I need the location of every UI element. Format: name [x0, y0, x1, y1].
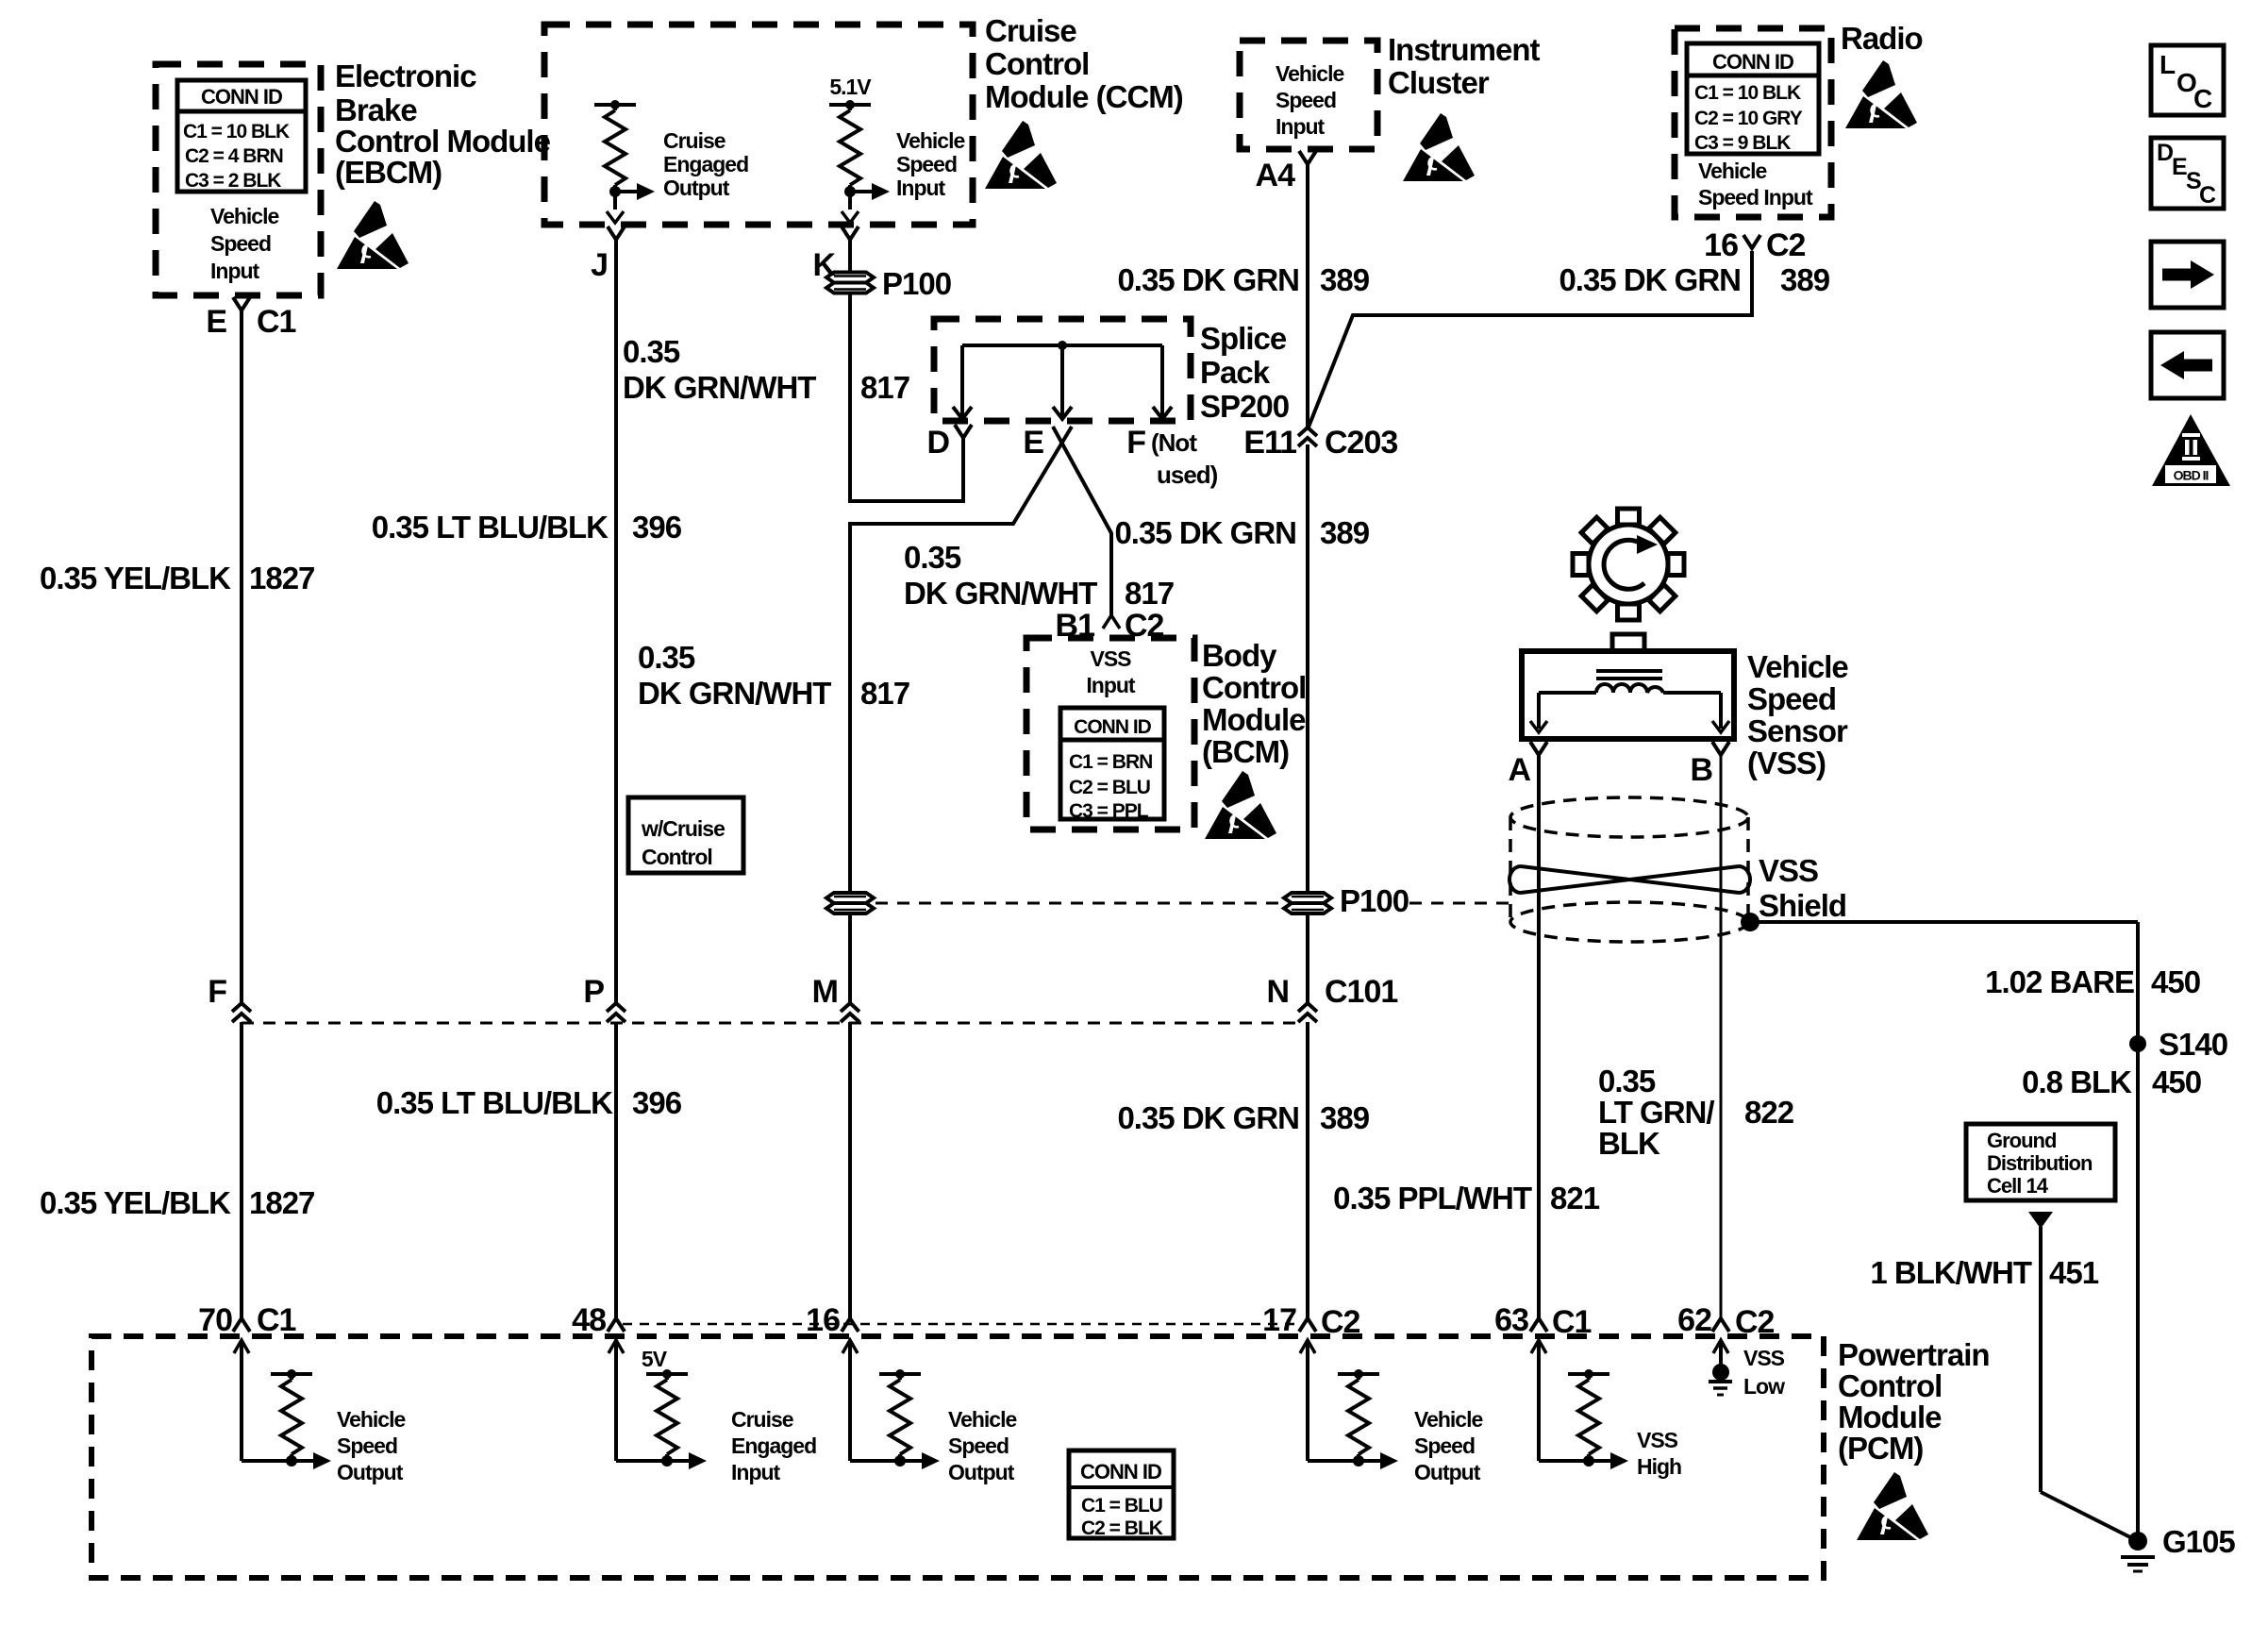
label Vehicle Speed Output 3	[1414, 1407, 1482, 1484]
svg-text:Speed: Speed	[1276, 88, 1336, 112]
connector P100 on M wire	[826, 893, 874, 914]
label Instrument Cluster	[1388, 32, 1541, 100]
connector E11 C203	[1243, 425, 1397, 461]
ESD symbol EBCM	[337, 201, 409, 269]
label 0.35 YEL/BLK 1827 lower	[40, 1185, 314, 1220]
svg-text:VSS: VSS	[1743, 1346, 1785, 1370]
svg-text:Input: Input	[210, 259, 260, 283]
svg-text:VSS: VSS	[1090, 646, 1131, 671]
svg-text:Input: Input	[1276, 114, 1326, 139]
svg-text:396: 396	[632, 510, 682, 545]
label Cruise Control Module (CCM)	[985, 13, 1183, 114]
svg-text:Vehicle: Vehicle	[210, 204, 278, 228]
svg-text:Cruise: Cruise	[663, 128, 725, 153]
label Splice Pack SP200	[1200, 321, 1289, 424]
wire E11 to P100	[1306, 444, 1309, 894]
svg-text:OBD II: OBD II	[2174, 468, 2209, 483]
svg-text:C1: C1	[1552, 1304, 1592, 1340]
pin A4 of cluster	[1256, 151, 1316, 193]
svg-text:Speed: Speed	[1414, 1433, 1475, 1458]
pin D of splice pack	[926, 425, 972, 461]
svg-text:Input: Input	[731, 1460, 781, 1484]
svg-text:(VSS): (VSS)	[1747, 746, 1826, 780]
ESD symbol BCM	[1205, 771, 1276, 839]
label 0.35 DK GRN 389 middle	[1114, 515, 1369, 550]
svg-text:CONN ID: CONN ID	[1080, 1460, 1161, 1484]
pin E of splice pack	[1023, 425, 1043, 461]
connector M C101	[812, 974, 859, 1022]
module Radio dashed box	[1675, 28, 1831, 217]
svg-text:70: 70	[198, 1302, 232, 1338]
svg-text:Electronic: Electronic	[335, 59, 476, 93]
BCM VSS Input label	[1086, 646, 1136, 697]
svg-text:C2 = BLK: C2 = BLK	[1081, 1517, 1163, 1539]
wire radio 16 to E11	[1308, 251, 1752, 429]
svg-text:VSS: VSS	[1759, 853, 1818, 888]
svg-text:D: D	[2157, 140, 2173, 166]
ground G105	[2121, 1524, 2235, 1571]
svg-text:C2: C2	[1735, 1304, 1775, 1340]
label Radio	[1841, 21, 1923, 56]
svg-text:Speed: Speed	[896, 152, 957, 176]
connector P100 on N wire	[1284, 883, 1409, 918]
svg-text:0.35: 0.35	[1598, 1064, 1656, 1098]
ESD symbol Instrument Cluster	[1403, 113, 1475, 181]
VSS inner wire left	[1530, 693, 1596, 732]
VSS gear icon	[1573, 509, 1684, 620]
label Vehicle Speed Output 1	[337, 1407, 405, 1484]
wire CCM J to P	[614, 240, 618, 1002]
svg-text:5.1V: 5.1V	[829, 75, 872, 99]
svg-text:Control: Control	[985, 46, 1089, 81]
wire PCM pin17 internal	[1300, 1340, 1359, 1461]
label 0.8 BLK 450	[2022, 1064, 2201, 1099]
svg-text:396: 396	[632, 1085, 682, 1120]
wire VSS A to PCM 63	[1537, 755, 1541, 1318]
icon OBD II triangle	[2152, 414, 2230, 486]
label 0.35 DK GRN/WHT 817 lower	[638, 640, 909, 711]
svg-text:A4: A4	[1256, 158, 1296, 193]
label 1.02 BARE 450	[1985, 964, 2200, 999]
label Electronic Brake Control Module (EBCM)	[335, 59, 551, 190]
svg-text:Speed Input: Speed Input	[1698, 185, 1813, 210]
wire P100 to M	[848, 915, 852, 1002]
svg-text:E11: E11	[1243, 425, 1296, 461]
svg-text:450: 450	[2152, 1064, 2201, 1099]
svg-text:1827: 1827	[249, 1185, 314, 1220]
svg-text:821: 821	[1550, 1181, 1600, 1215]
resistor CCM vehicle speed input	[829, 100, 890, 200]
svg-text:Splice: Splice	[1200, 321, 1287, 356]
pin E C1 of EBCM	[206, 297, 295, 340]
svg-text:Engaged: Engaged	[663, 152, 748, 176]
svg-text:S140: S140	[2159, 1027, 2227, 1062]
connector P100 on K wire	[826, 266, 951, 301]
connector P100 dashed link	[876, 902, 1509, 905]
EBCM CONN ID table	[177, 80, 306, 192]
svg-text:C2 = BLU: C2 = BLU	[1069, 777, 1150, 798]
svg-text:Pack: Pack	[1200, 355, 1271, 390]
label 0.35 DK GRN 389 radio	[1559, 262, 1829, 297]
svg-text:0.8 BLK: 0.8 BLK	[2022, 1064, 2132, 1099]
svg-text:389: 389	[1320, 262, 1370, 297]
label Vehicle Speed Sensor (VSS)	[1747, 649, 1848, 780]
Radio Vehicle Speed Input label	[1698, 159, 1813, 210]
svg-text:63: 63	[1494, 1302, 1528, 1338]
label Powertrain Control Module (PCM)	[1838, 1337, 1990, 1466]
wire N to PCM pin 17	[1306, 1022, 1309, 1318]
label Cruise Engaged Input	[731, 1407, 816, 1484]
svg-text:(BCM): (BCM)	[1202, 734, 1289, 769]
svg-text:Radio: Radio	[1841, 21, 1923, 56]
svg-text:Control: Control	[642, 845, 712, 869]
pin 16 of PCM	[806, 1302, 859, 1338]
svg-text:Vehicle: Vehicle	[1698, 159, 1766, 183]
label VSS Shield	[1759, 853, 1846, 923]
resistor PCM vehicle speed output 2	[879, 1369, 940, 1469]
svg-text:817: 817	[1125, 576, 1174, 611]
EBCM Vehicle Speed Input label	[210, 204, 278, 283]
label 0.35 DK GRN 389 top	[1117, 262, 1369, 297]
svg-text:(EBCM): (EBCM)	[335, 155, 442, 190]
svg-text:J: J	[591, 247, 608, 283]
svg-text:(PCM): (PCM)	[1838, 1431, 1923, 1466]
label 0.35 LT BLU/BLK 396 lower	[376, 1085, 682, 1120]
svg-text:C1 = 10 BLK: C1 = 10 BLK	[183, 121, 290, 142]
VSS coil	[1596, 684, 1663, 693]
pin A of VSS	[1508, 742, 1547, 788]
splice drop to F	[1153, 345, 1172, 419]
VSS sensor box	[1522, 634, 1734, 739]
svg-text:Control: Control	[1838, 1368, 1942, 1403]
cluster Vehicle Speed Input label	[1276, 61, 1343, 139]
svg-text:1827: 1827	[249, 561, 314, 595]
Radio CONN ID table	[1687, 43, 1819, 154]
svg-text:C1: C1	[257, 304, 296, 340]
svg-text:Control: Control	[1202, 670, 1306, 705]
svg-text:0.35: 0.35	[623, 334, 680, 369]
wire F to PCM pin 70	[240, 1022, 243, 1318]
PCM CONN ID table	[1069, 1450, 1174, 1539]
svg-text:B1: B1	[1056, 608, 1095, 644]
BCM CONN ID table	[1060, 708, 1164, 822]
ESD symbol PCM	[1857, 1472, 1928, 1540]
svg-text:17: 17	[1262, 1302, 1296, 1338]
wire PCM pin70 internal	[234, 1340, 292, 1461]
svg-text:Speed: Speed	[210, 231, 271, 256]
svg-text:817: 817	[860, 370, 909, 405]
pin 63 C1 of PCM	[1494, 1302, 1591, 1340]
label 5V	[642, 1347, 668, 1371]
svg-text:Cluster: Cluster	[1388, 65, 1490, 100]
svg-text:F: F	[1126, 425, 1145, 461]
wire CCM R2 to pin K	[842, 192, 859, 223]
svg-text:Instrument: Instrument	[1388, 32, 1541, 67]
svg-text:Vehicle: Vehicle	[1414, 1407, 1482, 1432]
label 0.35 LT GRN/BLK 822	[1598, 1064, 1794, 1161]
svg-text:L: L	[2160, 50, 2176, 79]
svg-text:F: F	[208, 974, 226, 1010]
pin 62 C2 of PCM	[1677, 1302, 1774, 1340]
connector C2 dashed line at PCM	[623, 1323, 1302, 1326]
svg-text:5V: 5V	[642, 1347, 668, 1371]
svg-text:822: 822	[1744, 1095, 1794, 1130]
svg-text:Sensor: Sensor	[1747, 713, 1848, 748]
svg-text:D: D	[926, 425, 949, 461]
svg-text:0.35 DK GRN: 0.35 DK GRN	[1114, 515, 1296, 550]
label Vehicle Speed Input CCM	[896, 128, 964, 200]
svg-text:C101: C101	[1325, 974, 1397, 1010]
svg-text:N: N	[1266, 974, 1289, 1010]
pin 16 C2 of Radio	[1704, 227, 1805, 263]
svg-text:Output: Output	[663, 176, 730, 200]
svg-text:Vehicle: Vehicle	[337, 1407, 405, 1432]
label (Not used)	[1151, 428, 1218, 489]
module BCM dashed box	[1026, 638, 1194, 830]
wire CCM R1 to pin J	[607, 192, 624, 223]
svg-text:Cell 14: Cell 14	[1987, 1174, 2049, 1198]
svg-text:Low: Low	[1743, 1374, 1785, 1399]
svg-text:(Not: (Not	[1151, 428, 1197, 457]
svg-text:C: C	[2199, 182, 2216, 209]
VSS shield dashed cylinder	[1510, 797, 1748, 942]
svg-text:P100: P100	[1340, 883, 1409, 918]
connector C101 dashed line	[242, 1022, 1304, 1025]
svg-text:C1 = BRN: C1 = BRN	[1069, 751, 1152, 773]
label VSS Low	[1743, 1346, 1785, 1399]
svg-text:P: P	[583, 974, 604, 1010]
label 1 BLK/WHT 451	[1870, 1255, 2098, 1290]
svg-text:C3 = PPL: C3 = PPL	[1069, 800, 1149, 822]
node S140	[2129, 1027, 2227, 1062]
svg-text:Speed: Speed	[337, 1433, 397, 1458]
pin 70 C1 of PCM	[198, 1302, 295, 1338]
svg-text:Cruise: Cruise	[985, 13, 1076, 48]
svg-text:1.02 BARE: 1.02 BARE	[1985, 964, 2134, 999]
connector F C101	[208, 974, 251, 1022]
svg-text:E: E	[206, 304, 226, 340]
svg-text:CONN ID: CONN ID	[201, 85, 282, 109]
wire PCM pin16 internal	[842, 1340, 900, 1461]
module Instrument Cluster dashed box	[1240, 41, 1377, 149]
splice bus wire	[962, 341, 1162, 350]
VSS core bars	[1596, 671, 1662, 679]
svg-text:0.35 DK GRN: 0.35 DK GRN	[1559, 262, 1741, 297]
label Body Control Module (BCM)	[1202, 638, 1306, 769]
svg-text:E: E	[2172, 154, 2187, 180]
svg-text:LT GRN/: LT GRN/	[1598, 1095, 1714, 1130]
svg-text:62: 62	[1677, 1302, 1711, 1338]
svg-text:C1: C1	[257, 1302, 296, 1338]
svg-text:C1 = 10 BLK: C1 = 10 BLK	[1694, 82, 1801, 104]
svg-text:Speed: Speed	[1747, 681, 1836, 716]
svg-text:C2: C2	[1125, 608, 1164, 644]
splice drop to D	[953, 345, 972, 419]
svg-text:High: High	[1637, 1454, 1681, 1479]
wire P100 to splice D	[850, 293, 963, 501]
wire M to PCM pin 16	[848, 1022, 852, 1318]
svg-text:DK GRN/WHT: DK GRN/WHT	[623, 370, 816, 405]
label Vehicle Speed Output 2	[948, 1407, 1016, 1484]
wire splice E to M run	[850, 427, 1072, 894]
icon right arrow box	[2151, 242, 2224, 308]
svg-text:E: E	[1023, 425, 1043, 461]
svg-text:Engaged: Engaged	[731, 1433, 816, 1458]
svg-text:Body: Body	[1202, 638, 1277, 673]
svg-text:Module: Module	[1838, 1400, 1942, 1434]
svg-text:1 BLK/WHT: 1 BLK/WHT	[1870, 1255, 2031, 1290]
resistor PCM VSS high	[1568, 1369, 1628, 1469]
svg-text:w/Cruise: w/Cruise	[641, 816, 725, 841]
svg-text:451: 451	[2049, 1255, 2099, 1290]
module EBCM dashed box	[156, 64, 321, 295]
svg-text:Vehicle: Vehicle	[896, 128, 964, 153]
svg-text:0.35 LT BLU/BLK: 0.35 LT BLU/BLK	[376, 1085, 613, 1120]
resistor PCM cruise engaged input	[646, 1369, 707, 1469]
wire PCM pin63 internal	[1531, 1340, 1589, 1461]
svg-text:P100: P100	[882, 266, 951, 301]
svg-text:C2: C2	[1321, 1304, 1360, 1340]
ground VSS low	[1709, 1364, 1732, 1395]
svg-text:389: 389	[1320, 1100, 1370, 1135]
svg-text:Powertrain: Powertrain	[1838, 1337, 1990, 1372]
svg-text:Speed: Speed	[948, 1433, 1009, 1458]
svg-text:G105: G105	[2162, 1524, 2235, 1559]
wire cluster A4 to E11	[1306, 164, 1309, 427]
label 0.35 LT BLU/BLK 396 upper	[372, 510, 682, 545]
resistor PCM vehicle speed output 3	[1338, 1369, 1398, 1469]
label 0.35 PPL/WHT 821	[1333, 1181, 1600, 1215]
svg-text:Shield: Shield	[1759, 888, 1846, 923]
splice pack SP200 dashed box	[934, 319, 1191, 421]
splice drop to E	[1053, 345, 1072, 419]
svg-text:CONN ID: CONN ID	[1074, 716, 1152, 738]
svg-text:C2 = 10 GRY: C2 = 10 GRY	[1694, 108, 1803, 129]
ground distribution cell 14 box	[1966, 1124, 2115, 1200]
svg-text:16: 16	[1704, 227, 1738, 263]
svg-text:Vehicle: Vehicle	[1747, 649, 1848, 684]
pin K of CCM	[812, 226, 859, 283]
svg-text:C: C	[2193, 84, 2212, 113]
wire EBCM E C1 to F	[240, 310, 243, 1002]
wire VSS B to PCM 62	[1720, 755, 1723, 1318]
svg-text:0.35: 0.35	[904, 540, 961, 575]
svg-text:C203: C203	[1325, 425, 1397, 461]
svg-text:Input: Input	[1086, 673, 1136, 697]
pin J of CCM	[591, 226, 625, 283]
label VSS High	[1637, 1428, 1681, 1479]
svg-text:C3 = 2 BLK: C3 = 2 BLK	[185, 170, 281, 192]
svg-text:Module: Module	[1202, 702, 1306, 737]
pin B of VSS	[1690, 742, 1729, 788]
svg-text:0.35 YEL/BLK: 0.35 YEL/BLK	[40, 1185, 231, 1220]
svg-text:Distribution: Distribution	[1987, 1151, 2093, 1175]
VSS twisted pair symbol	[1509, 866, 1750, 893]
svg-text:M: M	[812, 974, 838, 1010]
wire CCM K to P100	[848, 240, 852, 272]
label 0.35 DK GRN 389 lower	[1117, 1100, 1369, 1135]
VSS inner wire right	[1663, 693, 1729, 732]
svg-text:0.35: 0.35	[638, 640, 695, 675]
svg-text:389: 389	[1780, 262, 1830, 297]
module CCM dashed box	[544, 25, 973, 225]
svg-text:Ground: Ground	[1987, 1129, 2056, 1152]
node shield junction dot	[1741, 913, 1759, 931]
svg-text:0.35 LT BLU/BLK: 0.35 LT BLU/BLK	[372, 510, 609, 545]
label 5.1V	[829, 75, 872, 99]
svg-text:0.35 YEL/BLK: 0.35 YEL/BLK	[40, 561, 231, 595]
svg-text:Control Module: Control Module	[335, 124, 551, 159]
label 0.35 YEL/BLK 1827 upper	[40, 561, 314, 595]
svg-text:450: 450	[2151, 964, 2200, 999]
ESD symbol Radio	[1845, 60, 1917, 128]
svg-text:used): used)	[1157, 461, 1218, 489]
svg-text:16: 16	[806, 1302, 840, 1338]
svg-text:BLK: BLK	[1598, 1126, 1660, 1161]
svg-text:Vehicle: Vehicle	[948, 1407, 1016, 1432]
svg-text:Input: Input	[896, 176, 946, 200]
svg-text:817: 817	[860, 676, 909, 711]
module PCM dashed box	[92, 1336, 1824, 1578]
connector P C101	[583, 974, 625, 1022]
label Cruise Engaged Output	[663, 128, 748, 200]
pin 17 C2 of PCM	[1262, 1302, 1359, 1340]
svg-text:0.35 DK GRN: 0.35 DK GRN	[1117, 262, 1299, 297]
label 0.35 DK GRN/WHT 817 middle	[904, 540, 1174, 611]
svg-text:0.35 PPL/WHT: 0.35 PPL/WHT	[1333, 1181, 1532, 1215]
svg-text:C2: C2	[1766, 227, 1806, 263]
wire PCM pin62 internal	[1713, 1340, 1728, 1366]
svg-text:Brake: Brake	[335, 92, 417, 127]
svg-text:DK GRN/WHT: DK GRN/WHT	[638, 676, 831, 711]
svg-text:DK GRN/WHT: DK GRN/WHT	[904, 576, 1097, 611]
svg-text:Vehicle: Vehicle	[1276, 61, 1343, 86]
svg-text:CONN ID: CONN ID	[1712, 50, 1793, 74]
resistor PCM vehicle speed output 1	[271, 1369, 331, 1469]
wire shield to S140/G105	[1750, 922, 2138, 1541]
wire splice E to BCM B1	[1053, 427, 1111, 615]
ESD symbol CCM	[985, 121, 1057, 189]
svg-text:A: A	[1508, 752, 1530, 788]
svg-text:Output: Output	[948, 1460, 1015, 1484]
svg-text:Cruise: Cruise	[731, 1407, 793, 1432]
svg-text:B: B	[1690, 752, 1712, 788]
svg-text:SP200: SP200	[1200, 389, 1289, 424]
w/Cruise Control box	[628, 797, 743, 873]
resistor CCM cruise engaged output	[594, 100, 655, 200]
icon LOC box	[2151, 45, 2224, 115]
icon DESC box	[2151, 138, 2224, 209]
connector N C101	[1266, 974, 1397, 1022]
wire P100 to N	[1306, 915, 1309, 1002]
svg-text:Output: Output	[1414, 1460, 1481, 1484]
svg-text:C2 = 4 BRN: C2 = 4 BRN	[185, 145, 283, 167]
pin 48 of PCM	[572, 1302, 625, 1338]
svg-text:VSS: VSS	[1637, 1428, 1678, 1452]
svg-text:C3 = 9 BLK: C3 = 9 BLK	[1694, 132, 1791, 154]
svg-text:389: 389	[1320, 515, 1370, 550]
svg-text:C1 = BLU: C1 = BLU	[1081, 1495, 1162, 1517]
pin B1 C2 of BCM	[1056, 608, 1164, 644]
svg-text:0.35 DK GRN: 0.35 DK GRN	[1117, 1100, 1299, 1135]
wire P to PCM pin 48	[614, 1022, 618, 1318]
pin F of splice pack	[1126, 425, 1145, 461]
label 0.35 DK GRN/WHT 817 upper	[623, 334, 909, 405]
svg-text:48: 48	[572, 1302, 606, 1338]
wire ground distribution to G105	[2028, 1212, 2136, 1540]
wire PCM pin48 internal	[609, 1340, 667, 1461]
svg-text:Module (CCM): Module (CCM)	[985, 79, 1183, 114]
